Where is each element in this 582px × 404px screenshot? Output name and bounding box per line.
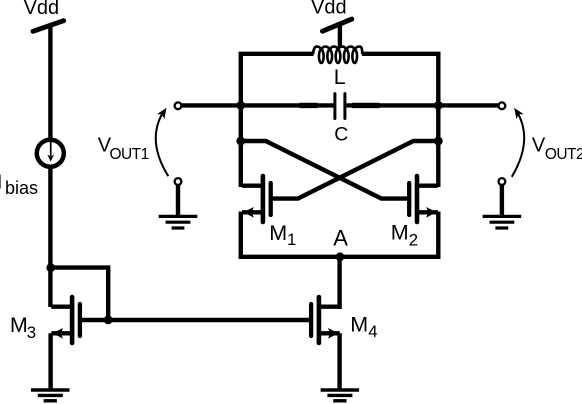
wire Vdd to inductor center tap — [338, 25, 342, 48]
junction node Ibias/M3 — [46, 263, 55, 272]
capacitor C — [300, 94, 380, 119]
wire terminal to ground (right) — [500, 185, 504, 218]
svg-text:2: 2 — [409, 230, 418, 249]
wire terminal to ground (left) — [176, 185, 180, 218]
transistor M3 — [51, 297, 80, 343]
svg-text:A: A — [333, 226, 348, 251]
terminal VOUT1 bottom — [175, 178, 182, 185]
ground (M4 source) — [321, 390, 360, 401]
svg-text:M: M — [269, 221, 287, 245]
wire cross-coupling M1 drain to M2 gate — [241, 141, 408, 199]
wire top rail right — [362, 54, 438, 187]
annotation arrow VOUT2 — [512, 108, 524, 177]
wire Vdd to current source — [48, 26, 52, 140]
wire M3 gate to M4 gate — [82, 318, 310, 322]
wire top rail left — [241, 54, 314, 187]
transistor M4 — [311, 297, 340, 343]
svg-text:4: 4 — [368, 322, 377, 341]
svg-text:1: 1 — [287, 230, 296, 249]
junction right rail / cross wire — [434, 137, 443, 146]
junction left rail / output row — [236, 101, 245, 110]
wire cross-coupling M2 drain to M1 gate — [272, 141, 438, 199]
ground (VOUT2) — [483, 216, 522, 228]
svg-text:C: C — [334, 124, 348, 146]
junction left rail / cross wire — [236, 137, 245, 146]
wire current source to M3 drain — [48, 167, 52, 308]
terminal VOUT2 bottom — [499, 178, 506, 185]
junction right rail / output row — [434, 101, 443, 110]
wire common source rail — [239, 255, 441, 259]
wire M2 source down — [436, 212, 440, 259]
wire diode-connect jumper — [51, 268, 108, 320]
wire M4 drain to node A — [337, 255, 341, 309]
node A junction — [336, 252, 345, 261]
transistor M1 — [242, 176, 271, 222]
terminal VOUT1 top — [175, 102, 182, 109]
current source Ibias — [37, 140, 64, 167]
svg-text:OUT1: OUT1 — [110, 146, 149, 163]
annotation arrow VOUT1 — [156, 108, 169, 176]
svg-text:M: M — [391, 221, 409, 245]
wire output row right — [346, 103, 498, 107]
wire M4 source to ground — [337, 333, 341, 388]
inductor L — [313, 47, 362, 63]
power Vdd symbol (center slanted bar) — [323, 19, 352, 31]
svg-text:OUT2: OUT2 — [545, 146, 582, 163]
transistor M2 — [409, 176, 438, 222]
svg-text:M: M — [10, 313, 28, 337]
svg-text:L: L — [334, 65, 346, 89]
power Vdd symbol (left slanted bar) — [33, 21, 64, 32]
svg-text:bias: bias — [5, 178, 38, 198]
svg-text:3: 3 — [27, 323, 36, 342]
ground (VOUT1) — [159, 216, 198, 228]
svg-text:Vdd: Vdd — [311, 0, 347, 19]
ground (M3 source) — [31, 390, 70, 401]
wire M3 source to ground — [48, 333, 52, 388]
junction M3 gate node — [104, 316, 113, 325]
terminal VOUT2 top — [499, 102, 506, 109]
wire M1 source down — [239, 212, 243, 259]
svg-text:V: V — [532, 135, 546, 157]
svg-text:I: I — [0, 171, 2, 193]
svg-text:Vdd: Vdd — [24, 0, 60, 19]
svg-text:M: M — [350, 312, 368, 336]
wire output row left — [182, 103, 334, 107]
